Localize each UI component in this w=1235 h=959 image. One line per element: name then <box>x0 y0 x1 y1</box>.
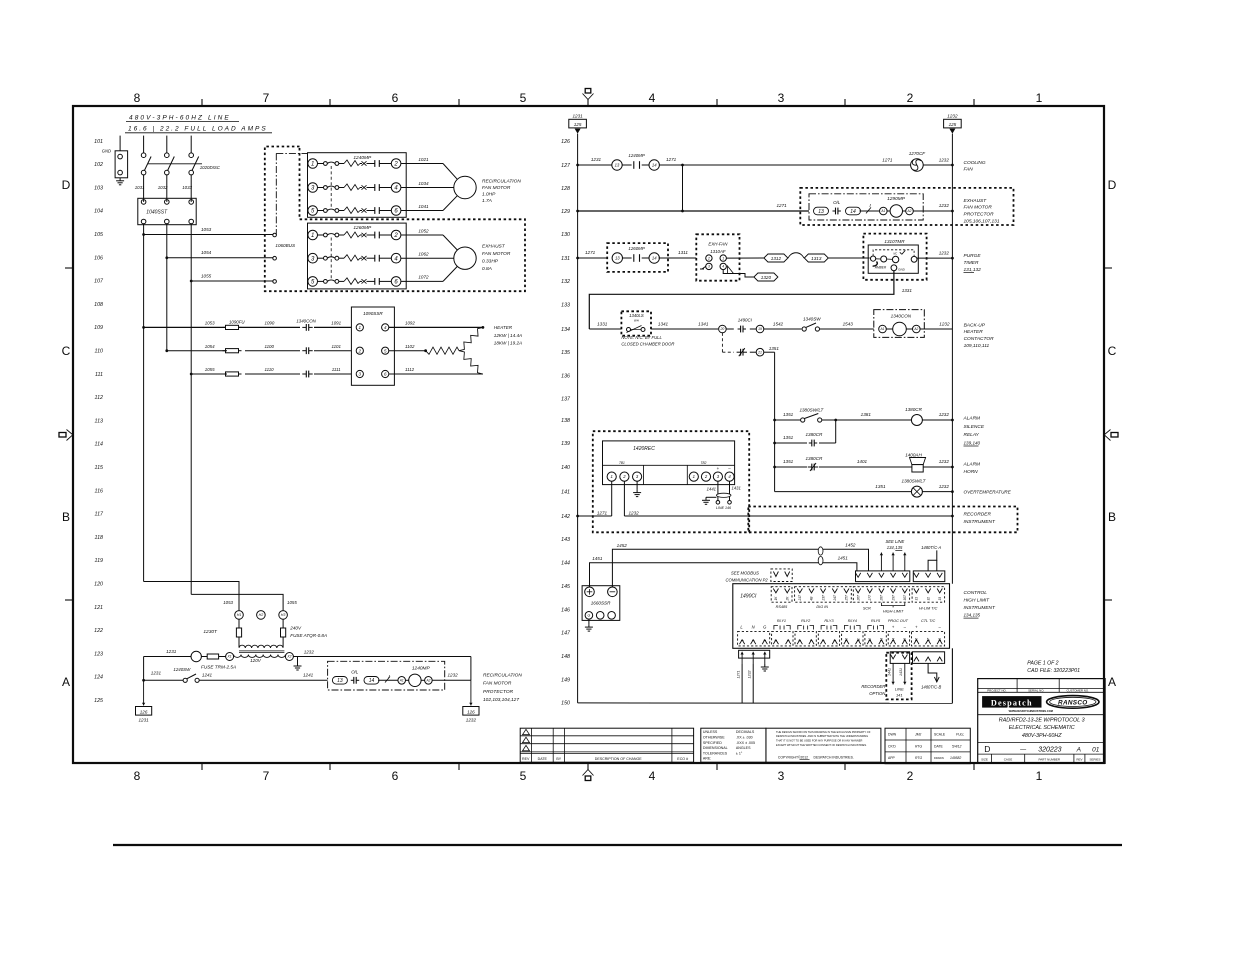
svg-text:125: 125 <box>94 698 103 704</box>
ground wire below G <box>764 664 766 667</box>
svg-text:1271: 1271 <box>666 157 677 162</box>
svg-text:1232: 1232 <box>466 718 477 723</box>
svg-text:RECIRCULATION: RECIRCULATION <box>483 672 522 678</box>
svg-text:8: 8 <box>821 640 825 642</box>
svg-text:132: 132 <box>561 279 570 285</box>
svg-text:139: 139 <box>561 441 570 447</box>
exhaust fan airflow switch EXH-FAN 1310AF <box>696 234 739 280</box>
svg-text:0.33HP: 0.33HP <box>482 258 499 264</box>
terminal group DIG IN <box>795 587 852 603</box>
secondary fuse FUSE TRM-2.5A <box>207 654 218 659</box>
bus bar dash-dot conductor <box>275 153 277 234</box>
svg-text:6: 6 <box>392 91 399 105</box>
exhaust fan motor protector dashed enclosure <box>800 188 1013 225</box>
svg-text:TB2: TB2 <box>701 461 707 465</box>
ground at X2 <box>293 656 297 658</box>
wire 1034 <box>401 187 454 189</box>
svg-text:1270CF: 1270CF <box>909 151 927 156</box>
svg-text:EXHAUST: EXHAUST <box>482 243 506 249</box>
svg-text:C: C <box>62 344 71 358</box>
svg-text:ECO #: ECO # <box>677 757 688 761</box>
hex label 1312 <box>764 254 788 262</box>
svg-text:FAN MOTOR: FAN MOTOR <box>964 205 993 211</box>
dashed mechanical link contact 20 to line 135 <box>721 333 723 352</box>
svg-text:1020DISC: 1020DISC <box>200 165 221 170</box>
Despatch logo <box>982 696 1041 708</box>
proprietary note block <box>766 728 881 762</box>
svg-text:1: 1 <box>1036 91 1043 105</box>
svg-text:1232: 1232 <box>947 113 958 118</box>
svg-text:6: 6 <box>392 769 399 783</box>
feed wire 1054 line 106 <box>167 257 274 259</box>
svg-text:RTG: RTG <box>915 744 922 748</box>
svg-text:2012: 2012 <box>801 755 809 759</box>
svg-text:101: 101 <box>94 139 103 145</box>
svg-text:1054: 1054 <box>205 344 215 349</box>
svg-text:1271: 1271 <box>882 158 893 163</box>
svg-text:1232: 1232 <box>747 671 751 679</box>
wire 1232 from X2 to line 124 <box>298 656 471 658</box>
svg-text:ANGLES: ANGLES <box>736 746 751 750</box>
svg-text:1271: 1271 <box>776 203 787 208</box>
svg-text:FULL: FULL <box>956 733 964 737</box>
svg-text:24T: 24T <box>833 594 837 602</box>
phase B vertical wire <box>166 224 168 351</box>
control instrument 1490CI main box <box>733 584 950 649</box>
svg-text:1311: 1311 <box>678 250 688 255</box>
rung 142 wire <box>576 515 579 518</box>
svg-text:O/L: O/L <box>833 200 841 205</box>
svg-text:124: 124 <box>94 675 103 681</box>
wire 1543 <box>820 328 874 330</box>
svg-text:134: 134 <box>561 327 570 333</box>
overload relay 1290MP <box>809 194 923 220</box>
svg-text:+: + <box>717 466 720 471</box>
svg-text:2K: 2K <box>785 596 789 602</box>
tolerance note block <box>701 728 766 762</box>
svg-text:1090: 1090 <box>265 321 275 326</box>
svg-text:RANSCO: RANSCO <box>1058 699 1088 706</box>
svg-text:H2: H2 <box>259 613 264 617</box>
svg-text:1290MP: 1290MP <box>887 196 906 202</box>
svg-text:D: D <box>62 178 71 192</box>
svg-text:1380SW/LT: 1380SW/LT <box>799 408 824 413</box>
svg-text:1381: 1381 <box>861 412 872 417</box>
svg-text:104: 104 <box>94 209 103 215</box>
svg-text:1053: 1053 <box>201 227 212 232</box>
svg-text:1232: 1232 <box>939 321 950 326</box>
svg-text:1341: 1341 <box>698 321 709 326</box>
solid state relay 1660SSR <box>582 586 620 621</box>
timer contact 19 <box>750 328 756 330</box>
wire from pin 2 to 1320 <box>723 270 754 277</box>
contact 1260MP 13-14 dashed box <box>607 243 668 272</box>
svg-text:1340CON: 1340CON <box>891 313 912 318</box>
starter 1260MP gang linkage <box>330 238 332 280</box>
svg-text:SERIES: SERIES <box>1089 757 1100 761</box>
svg-text:1232: 1232 <box>304 650 315 655</box>
svg-text:B: B <box>62 510 70 524</box>
svg-text:2: 2 <box>907 91 914 105</box>
starter 1240MP gang linkage <box>330 166 332 208</box>
svg-text:COPYRIGHT©: COPYRIGHT© <box>778 755 801 759</box>
svg-text:RLY2: RLY2 <box>801 619 811 623</box>
svg-text:143: 143 <box>561 537 570 543</box>
svg-text:1543: 1543 <box>843 321 854 326</box>
rung 129 wire 1271 <box>576 210 579 213</box>
svg-text:16.6 | 22.2 FULL LOAD AMPS: 16.6 | 22.2 FULL LOAD AMPS <box>128 125 268 132</box>
motor starter 1260MP block <box>308 223 407 289</box>
svg-text:145: 145 <box>561 584 570 590</box>
svg-text:1260MP: 1260MP <box>353 225 372 231</box>
svg-text:RS485: RS485 <box>776 605 788 609</box>
svg-text:1240MP: 1240MP <box>628 153 644 158</box>
svg-text:1240MP: 1240MP <box>353 155 372 161</box>
svg-text:136: 136 <box>561 373 570 379</box>
svg-text:BY: BY <box>556 757 561 761</box>
svg-text:ELECTRICAL SCHEMATIC: ELECTRICAL SCHEMATIC <box>1009 725 1075 731</box>
svg-text:1053: 1053 <box>223 600 233 605</box>
svg-text:28T: 28T <box>880 594 884 602</box>
svg-text:DIG IN: DIG IN <box>816 605 828 609</box>
svg-text:HIGH-LIMIT: HIGH-LIMIT <box>883 609 904 613</box>
svg-text:1351: 1351 <box>783 459 794 464</box>
svg-text:TOLERANCES: TOLERANCES <box>703 751 728 755</box>
svg-text:13: 13 <box>337 678 343 684</box>
svg-text:1230T: 1230T <box>203 629 218 635</box>
surge suppressor 1040SST <box>138 198 196 224</box>
svg-text:1451: 1451 <box>838 556 849 561</box>
svg-text:130: 130 <box>561 232 570 238</box>
wire 1311 <box>659 257 697 259</box>
svg-text:RLY4: RLY4 <box>848 619 857 623</box>
recorder 1420REC terminal box <box>603 441 735 485</box>
svg-text:.XX ± .030: .XX ± .030 <box>736 736 753 740</box>
svg-text:125: 125 <box>949 122 957 127</box>
svg-text:1052: 1052 <box>418 228 429 233</box>
svg-text:149: 149 <box>561 677 570 683</box>
instrument outer enclosure bottom <box>732 647 734 649</box>
svg-text:13: 13 <box>880 638 884 642</box>
svg-text:1053: 1053 <box>205 321 215 326</box>
svg-text:A: A <box>1076 746 1081 753</box>
svg-text:133: 133 <box>561 303 570 309</box>
svg-text:128: 128 <box>561 186 570 192</box>
svg-text:3: 3 <box>763 640 767 642</box>
hex label 1313 <box>804 254 828 262</box>
svg-text:19: 19 <box>758 327 762 331</box>
svg-text:5/4/12: 5/4/12 <box>952 744 962 748</box>
svg-text:114: 114 <box>95 442 103 448</box>
heater feed wire line 110 <box>165 349 168 352</box>
svg-text:INSTRUMENT: INSTRUMENT <box>964 519 997 525</box>
svg-text:CUSTOMER NO.: CUSTOMER NO. <box>1066 689 1089 693</box>
svg-text:.XXX ± .005: .XXX ± .005 <box>736 741 755 745</box>
svg-text:31: 31 <box>915 597 919 601</box>
svg-text:FAN MOTOR: FAN MOTOR <box>482 185 511 191</box>
svg-text:ALARM: ALARM <box>963 416 981 422</box>
svg-text:O/L: O/L <box>351 669 359 674</box>
wire 1033 <box>190 175 192 202</box>
svg-text:SCR: SCR <box>863 606 871 610</box>
back-up heater contactor 1340CON <box>874 310 925 338</box>
svg-text:146: 146 <box>561 607 570 613</box>
svg-text:1452: 1452 <box>845 543 856 548</box>
svg-text:118: 118 <box>95 535 103 541</box>
svg-text:126: 126 <box>561 139 570 145</box>
svg-text:1110: 1110 <box>265 367 275 372</box>
feed wire 1053 line 105 <box>144 234 274 236</box>
svg-text:1351: 1351 <box>875 484 886 489</box>
svg-text:01: 01 <box>1092 746 1100 753</box>
svg-text:4: 4 <box>649 769 656 783</box>
wire 1232 drop <box>752 664 754 703</box>
svg-text:EXCEPT WITHOUT THE WRITTEN CON: EXCEPT WITHOUT THE WRITTEN CONSENT OF DE… <box>776 743 867 747</box>
svg-text:5: 5 <box>786 640 790 642</box>
wire to 1312 <box>726 257 764 259</box>
svg-text:PROJECT NO.: PROJECT NO. <box>987 689 1007 693</box>
svg-text:1452: 1452 <box>617 543 628 548</box>
svg-text:137: 137 <box>561 397 571 403</box>
svg-text:1320: 1320 <box>761 275 772 280</box>
svg-text:SIZE: SIZE <box>981 757 988 761</box>
svg-text:1441: 1441 <box>887 668 891 676</box>
svg-text:HEATER: HEATER <box>964 329 984 335</box>
svg-text:15: 15 <box>903 638 907 642</box>
svg-text:COMMUNICATION P2: COMMUNICATION P2 <box>726 578 769 583</box>
svg-text:REV: REV <box>1076 757 1082 761</box>
svg-text:1351: 1351 <box>783 435 794 440</box>
svg-text:DWN: DWN <box>888 733 897 737</box>
svg-text:C: C <box>1108 344 1117 358</box>
svg-text:134,135: 134,135 <box>964 613 981 618</box>
svg-text:SEE LINE: SEE LINE <box>885 539 904 544</box>
svg-text:NOTE: N.C. BY FULL: NOTE: N.C. BY FULL <box>621 335 662 340</box>
svg-text:PAGE 1 OF 2: PAGE 1 OF 2 <box>1027 661 1058 667</box>
svg-text:18: 18 <box>938 638 942 642</box>
right control rail 1232 <box>951 134 953 584</box>
contact 1490CI capacitor symbol <box>738 328 741 330</box>
svg-text:A1: A1 <box>399 678 404 682</box>
svg-text:23T: 23T <box>821 594 825 602</box>
svg-text:D: D <box>984 744 990 754</box>
svg-text:1431: 1431 <box>732 486 741 491</box>
svg-text:DATE: DATE <box>934 744 944 748</box>
limit switch 1340LS <box>621 311 651 335</box>
svg-text:1480T/C-B: 1480T/C-B <box>921 684 941 689</box>
svg-text:EXH-FAN: EXH-FAN <box>708 241 728 246</box>
wire 1052 <box>401 234 443 236</box>
svg-text:A1: A1 <box>880 327 885 331</box>
modbus port dashed box <box>771 569 792 582</box>
svg-text:A1: A1 <box>880 209 885 213</box>
svg-text:G: G <box>588 614 591 618</box>
svg-text:1451: 1451 <box>592 556 603 561</box>
svg-text:CONTACTOR: CONTACTOR <box>964 336 994 342</box>
svg-text:29T: 29T <box>891 594 895 602</box>
svg-text:14: 14 <box>652 163 657 168</box>
svg-text:WH: WH <box>634 319 640 323</box>
svg-text:PURGE: PURGE <box>964 253 982 259</box>
wire 1313 to purge timer <box>828 257 869 259</box>
wire 1232 line 140 <box>923 466 952 468</box>
svg-text:106: 106 <box>94 255 103 261</box>
svg-text:1401: 1401 <box>857 459 868 464</box>
svg-text:A: A <box>62 675 70 689</box>
svg-text:1240SW: 1240SW <box>173 667 191 672</box>
svg-text:AMBER: AMBER <box>874 265 887 269</box>
terminal group RS485 <box>771 587 792 603</box>
svg-text:1232: 1232 <box>939 158 950 163</box>
sheet reference box 126/1231 bottom left <box>143 680 145 705</box>
secondary terminal X1 <box>226 653 234 661</box>
wire 1232 line 141 <box>922 491 952 493</box>
svg-text:1102: 1102 <box>405 344 415 349</box>
svg-text:1090SSR: 1090SSR <box>363 311 383 316</box>
motor starter 1240MP block <box>308 153 407 218</box>
svg-text:0.8A: 0.8A <box>482 266 492 272</box>
wire 1341 <box>651 328 718 330</box>
svg-text:APP: APP <box>888 756 896 760</box>
svg-text:1060BUS: 1060BUS <box>275 243 296 248</box>
svg-text:120: 120 <box>94 582 103 588</box>
svg-text:1232: 1232 <box>939 459 950 464</box>
wire 1331 from purge timer to line 134 <box>589 271 894 329</box>
svg-text:14: 14 <box>369 678 375 684</box>
svg-text:112: 112 <box>95 395 103 401</box>
svg-text:20: 20 <box>720 327 725 331</box>
svg-text:CLOSED CHAMBER DOOR: CLOSED CHAMBER DOOR <box>621 341 674 346</box>
svg-text:HI-LIM T/C: HI-LIM T/C <box>919 606 938 610</box>
phase A vertical wire <box>143 224 145 582</box>
motor protector relay 1240MP line 124 <box>328 661 445 690</box>
svg-text:1241: 1241 <box>303 673 314 678</box>
svg-text:1232: 1232 <box>939 203 950 208</box>
terminal group SCR <box>853 587 909 603</box>
normally closed contact line 135 <box>737 351 741 353</box>
svg-text:110: 110 <box>95 349 103 355</box>
svg-text:CTL T/C: CTL T/C <box>921 619 936 623</box>
svg-text:111: 111 <box>95 372 103 378</box>
ground at 1660SSR <box>588 619 590 624</box>
wire 1231 drop to line 124 <box>143 657 145 681</box>
svg-text:SILENCE: SILENCE <box>964 424 985 430</box>
ground at TB1-3 <box>636 481 638 489</box>
line 150 bottom wire <box>578 702 953 704</box>
svg-text:14: 14 <box>850 209 856 215</box>
svg-text:D: D <box>1108 178 1117 192</box>
bus tap circles <box>273 233 277 237</box>
svg-text:122: 122 <box>94 628 103 634</box>
svg-text:25T: 25T <box>845 594 849 602</box>
svg-text:4: 4 <box>774 640 778 642</box>
svg-text:1400AH: 1400AH <box>905 453 922 458</box>
svg-text:129: 129 <box>561 209 570 215</box>
svg-text:1040SST: 1040SST <box>146 210 168 216</box>
svg-text:LINE: LINE <box>895 687 904 692</box>
svg-text:B: B <box>1108 510 1116 524</box>
terminal group HI-LIM T/C <box>912 587 945 603</box>
interconnect arc 1312-1313 <box>788 253 804 258</box>
field terminal strip above instrument <box>856 571 910 582</box>
svg-text:1034: 1034 <box>418 181 429 186</box>
svg-text:135: 135 <box>561 350 570 356</box>
svg-text:1232: 1232 <box>939 250 950 255</box>
svg-text:1055: 1055 <box>201 273 212 278</box>
svg-text:OPTION: OPTION <box>869 691 886 696</box>
feed wire 1055 line 107 <box>191 280 273 282</box>
heater element resistors <box>424 349 427 352</box>
svg-text:COOLING: COOLING <box>964 160 986 166</box>
svg-text:CAGE: CAGE <box>1004 757 1013 761</box>
signature block <box>885 728 970 764</box>
svg-text:5: 5 <box>520 769 527 783</box>
svg-text:1312: 1312 <box>771 256 782 261</box>
rung 127 contact 1240MP 13-14 <box>576 164 579 167</box>
svg-text:115: 115 <box>95 465 103 471</box>
svg-text:1271: 1271 <box>597 510 608 515</box>
svg-text:2: 2 <box>907 769 914 783</box>
svg-text:138: 138 <box>561 418 570 424</box>
wire 1102 <box>389 350 426 352</box>
svg-text:1232: 1232 <box>939 484 950 489</box>
timer contact 21 <box>750 351 756 353</box>
recorder option wires 1441/1431 <box>892 663 894 684</box>
svg-text:140: 140 <box>561 465 570 471</box>
svg-text:134,: 134, <box>887 545 895 550</box>
wire 1542 <box>764 328 802 330</box>
svg-text:240V: 240V <box>289 625 302 630</box>
svg-text:1232: 1232 <box>448 673 459 678</box>
wire up to line 138 <box>835 420 837 443</box>
svg-text:1351: 1351 <box>769 346 780 351</box>
svg-text:1480T/C-A: 1480T/C-A <box>921 545 941 550</box>
svg-text:150: 150 <box>561 701 570 707</box>
svg-text:DRAWN: DRAWN <box>934 756 944 760</box>
svg-text:1231: 1231 <box>151 671 162 676</box>
svg-text:1490CI: 1490CI <box>740 593 757 599</box>
svg-text:1231: 1231 <box>166 649 177 654</box>
svg-text:1055: 1055 <box>287 600 297 605</box>
svg-text:2: 2 <box>358 348 362 353</box>
recorder option terminal box <box>890 652 909 664</box>
svg-text:RLY5: RLY5 <box>871 619 881 623</box>
svg-text:103: 103 <box>94 185 103 191</box>
svg-text:1351: 1351 <box>783 412 794 417</box>
svg-text:1232: 1232 <box>939 412 950 417</box>
svg-text:147: 147 <box>561 631 571 637</box>
svg-text:141: 141 <box>561 489 570 495</box>
svg-text:8: 8 <box>134 769 141 783</box>
rung 141 overtemperature lamp <box>775 491 912 493</box>
svg-text:1340SW: 1340SW <box>803 317 821 322</box>
svg-text:1: 1 <box>1036 769 1043 783</box>
wire 1351 vertical to alarm rungs <box>774 352 776 491</box>
svg-text:107: 107 <box>94 279 104 285</box>
svg-text:A2: A2 <box>907 209 912 213</box>
svg-text:SERIAL NO.: SERIAL NO. <box>1028 689 1044 693</box>
svg-text:1112: 1112 <box>405 367 415 372</box>
title block bottom labels <box>978 753 1105 755</box>
svg-text:121: 121 <box>94 605 103 611</box>
svg-text:21: 21 <box>757 350 762 354</box>
svg-text:1380CR: 1380CR <box>805 432 823 437</box>
timer contact 20 <box>719 325 727 333</box>
recorder 1420REC outer dashed box <box>593 431 749 532</box>
wire 1112 <box>389 373 440 375</box>
wire phase C to transformer H3 <box>191 594 283 610</box>
hex label 1320 <box>754 273 778 281</box>
